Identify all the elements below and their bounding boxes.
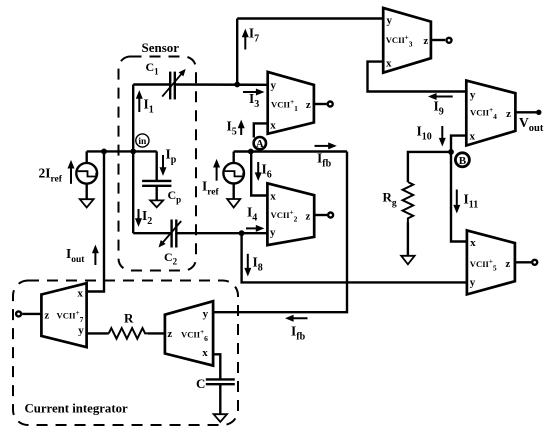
wire C2 row right to U2 y [177,232,268,234]
wire sensor left vertical [132,85,134,234]
resistor Rg [403,182,414,223]
resistor R [109,328,148,339]
sensor dashed box [119,57,197,271]
wire C1 left [133,83,170,85]
svg-text:z: z [505,258,510,270]
ground Rg [401,256,414,264]
capacitor C2 variable arrow [159,221,182,248]
svg-text:z: z [423,35,428,47]
svg-text:Current integrator: Current integrator [25,402,128,416]
wire Rg to ground [407,223,409,256]
wire U5 z [515,261,531,263]
ground C [214,414,227,422]
junction node A [248,149,254,155]
svg-text:Sensor: Sensor [142,40,180,55]
arrow I6 [255,162,262,181]
svg-text:x: x [386,58,392,70]
arrow I7 [242,29,249,50]
junction I8 [239,230,245,236]
wire C2 row left [133,232,170,234]
svg-text:z: z [306,99,311,111]
capacitor C [206,379,235,384]
wire top to U3 y [237,17,383,19]
svg-text:R: R [124,311,134,326]
wire C to ground [219,384,221,414]
wire Rg branch [408,152,451,182]
wire U3 x to U4 y [368,62,467,92]
svg-text:x: x [270,120,276,132]
capacitor C1 variable arrow [162,69,186,97]
op-amp U5 VCII+5 [467,230,515,294]
wire Cp branch [155,151,157,180]
arrow I8 [244,254,251,277]
svg-text:y: y [203,308,209,320]
junction in wire [130,149,136,155]
ground 2Iref [80,184,94,208]
terminal U1 z [328,102,333,107]
wire U7 y to R [87,332,109,334]
svg-text:z: z [306,210,311,222]
wire U1 x to node A [254,123,268,137]
wire U4 z to Vout [515,111,536,113]
arrow I11 [453,190,460,214]
node B [455,153,469,167]
svg-text:y: y [386,15,392,27]
wire Ifb right loop [213,152,347,313]
svg-text:in: in [138,137,147,147]
junction node B [448,149,454,155]
arrow Iout [92,245,99,265]
svg-text:y: y [470,277,476,289]
arrow I5 [238,120,245,135]
current source 2Iref [68,151,98,183]
terminal U5 z [532,260,537,265]
arrow Ifb top [315,142,337,149]
wire 2Iref row [87,150,157,152]
arrow I3 [243,89,265,96]
wire U1 z [314,103,327,105]
svg-text:y: y [270,226,276,238]
arrow I2 [135,209,142,227]
svg-text:x: x [470,237,476,249]
wire U4 x down to U5 x [451,136,467,242]
svg-text:y: y [270,80,276,92]
svg-text:A: A [256,139,264,150]
terminal Vout dot [536,110,541,115]
junction Iout [101,149,107,155]
wire U3 z [431,39,445,41]
op-amp U3 VCII+3 [383,8,431,73]
op-amp U7 VCII+7 [41,283,86,347]
ground Iref [227,184,240,208]
op-amp U2 VCII+2 [267,183,314,245]
arrow I4 [246,225,264,232]
op-amp U6 VCII+6 [165,301,213,365]
svg-text:C: C [196,376,205,391]
wire C1 right to U1 y [175,83,268,86]
current integrator dashed box [13,281,238,426]
arrow I1 [136,90,143,112]
arrow I10 [439,126,446,147]
wire I8 down and right to U5 y [242,233,467,282]
node A [254,137,266,150]
current source Iref [213,152,244,184]
svg-text:y: y [470,89,476,101]
wire Iref row [234,150,347,152]
wire Iout [87,151,104,291]
op-amp U1 VCII+1 [268,72,314,134]
svg-text:z: z [167,328,172,340]
terminal U7 z [16,311,21,316]
wire I7 riser [236,19,238,85]
svg-text:B: B [459,155,467,167]
node junction at I7/C1 [234,82,240,88]
svg-text:z: z [44,310,49,322]
capacitor C2 plates [172,220,177,248]
arrow I9 [428,93,453,100]
capacitor C1 plates [170,72,175,100]
svg-text:z: z [506,108,511,120]
terminal U3 z [447,38,452,43]
wire U6 x to C [213,354,220,379]
wire U2 z [314,214,327,216]
terminal U2 z [328,213,333,218]
svg-text:x: x [470,130,476,142]
wire U7 z [22,313,41,315]
node in [136,134,149,147]
capacitor Cp [142,181,171,186]
svg-text:y: y [78,325,84,337]
svg-text:x: x [270,190,276,202]
svg-text:x: x [77,287,83,299]
arrow Ip [160,155,167,176]
svg-text:x: x [202,347,208,359]
wire I6 to U2 x [251,152,267,196]
arrow Ifb bottom [285,315,308,322]
wire R to U6 z [148,332,165,334]
op-amp U4 VCII+4 [466,81,515,146]
ground Cp [150,186,163,208]
